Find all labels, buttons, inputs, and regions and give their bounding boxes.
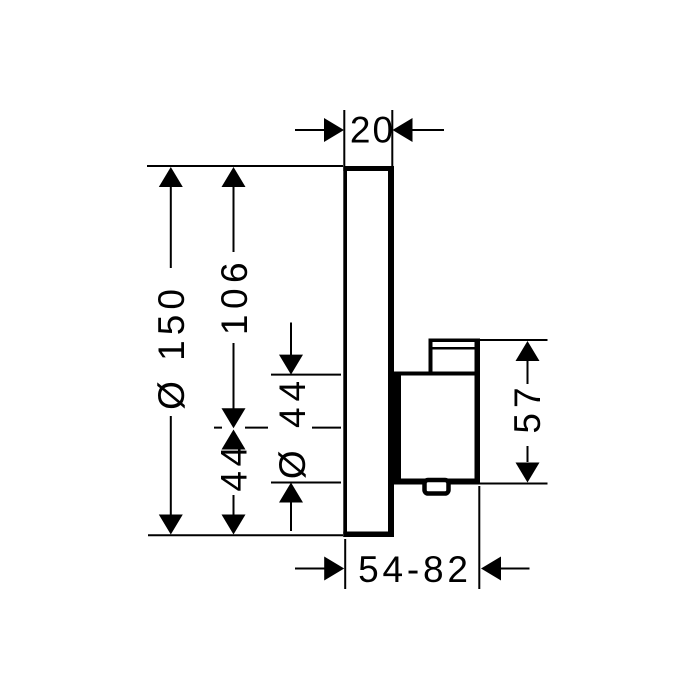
svg-text:106: 106: [214, 257, 255, 335]
svg-text:57: 57: [507, 382, 548, 433]
svg-text:Ø 150: Ø 150: [151, 284, 192, 410]
svg-text:44: 44: [214, 441, 255, 491]
svg-text:54-82: 54-82: [358, 549, 472, 590]
svg-text:20: 20: [350, 110, 395, 151]
svg-text:Ø 44: Ø 44: [272, 375, 313, 479]
